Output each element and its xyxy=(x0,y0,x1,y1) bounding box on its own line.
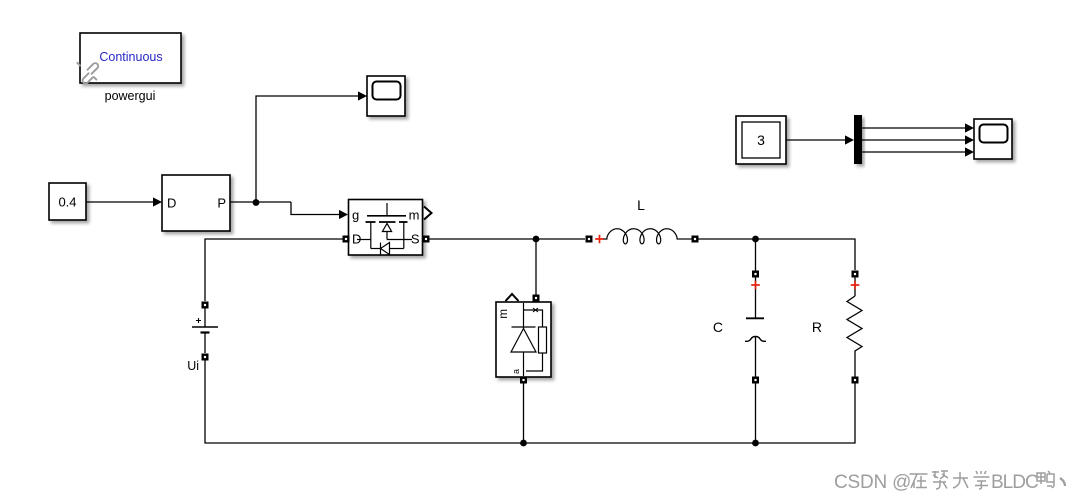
wire red plus to coil xyxy=(604,238,608,240)
svg-text:Continuous: Continuous xyxy=(99,50,162,64)
svg-text:m: m xyxy=(498,309,510,319)
wire D of mosfet to battery top xyxy=(205,239,343,301)
wire demux out2 xyxy=(862,139,966,141)
demux bar xyxy=(854,115,862,164)
wire coil to right port xyxy=(677,238,693,240)
resistor R xyxy=(812,271,862,384)
dc source Ui xyxy=(187,302,218,374)
battery plates xyxy=(192,326,218,328)
mosfet Q1 block xyxy=(349,200,423,256)
svg-text:C: C xyxy=(713,319,723,335)
broken-link icon xyxy=(77,63,98,84)
constant K2 value 3 xyxy=(736,116,786,164)
node J4 on bus xyxy=(520,440,527,447)
port D square xyxy=(343,236,350,243)
wire demux out1 xyxy=(862,127,966,129)
svg-text:BLDC: BLDC xyxy=(991,472,1038,493)
svg-text:P: P xyxy=(217,196,226,211)
port Ui + square xyxy=(202,302,209,309)
node J1 xyxy=(253,199,260,206)
svg-text:powergui: powergui xyxy=(105,89,156,103)
powergui U_powergui xyxy=(80,33,181,83)
svg-text:R: R xyxy=(812,319,822,335)
diode m output chevron up xyxy=(506,294,519,301)
inductor L ports xyxy=(586,236,593,243)
subsystem U_PWM (D/P) xyxy=(162,175,230,231)
wire bus J4 to R corner xyxy=(524,383,856,443)
node J5 on bus xyxy=(752,440,759,447)
node J2 xyxy=(533,236,540,243)
svg-text:a: a xyxy=(511,369,521,374)
watermark CSDN text xyxy=(834,472,1039,494)
zigzag xyxy=(847,296,862,377)
node J3 xyxy=(752,236,759,243)
red plus at R xyxy=(851,281,860,290)
wire Ui down to bottom bus xyxy=(205,361,523,444)
scope Scope2 xyxy=(974,119,1012,159)
svg-text:m: m xyxy=(409,208,420,223)
svg-text:3: 3 xyxy=(757,132,765,148)
svg-text:Ui: Ui xyxy=(187,359,199,373)
wire 0.4 to D input xyxy=(86,201,154,203)
diode D1 internals xyxy=(511,303,547,376)
scope Scope1 xyxy=(367,76,405,116)
red plus at L xyxy=(595,235,604,244)
constant K1 value 0.4 xyxy=(49,183,86,220)
mosfet Q1 internal symbol xyxy=(357,203,412,255)
svg-text:g: g xyxy=(352,208,359,223)
port Ui - square xyxy=(202,354,209,361)
capacitor C xyxy=(713,271,766,384)
diode D1 block xyxy=(496,302,551,377)
diode top port square xyxy=(533,295,540,302)
wire S of mosfet to node J2 and L xyxy=(430,238,586,240)
wire 3 to demux xyxy=(786,139,846,141)
wire diode bottom to bus xyxy=(523,384,525,444)
svg-text:D: D xyxy=(167,196,176,211)
port m output chevron xyxy=(424,207,432,220)
plus sign of source xyxy=(196,318,201,323)
wire J3 down to capacitor xyxy=(755,239,757,271)
wire junction up to Scope1 xyxy=(256,96,359,202)
wire demux out3 xyxy=(862,151,966,153)
wire junction to gate g xyxy=(291,202,340,215)
capacitor plates xyxy=(746,317,764,319)
port S square xyxy=(423,236,430,243)
diode bottom port square xyxy=(520,377,527,384)
wire J2 down to diode xyxy=(535,239,537,296)
wire L to R corner with node J3 xyxy=(699,239,856,270)
svg-text:S: S xyxy=(411,232,420,247)
inductor L coil xyxy=(607,229,677,244)
watermark CJK glyphs xyxy=(911,472,1066,490)
svg-text:0.4: 0.4 xyxy=(58,195,76,210)
wire C to bus xyxy=(755,384,757,444)
svg-text:L: L xyxy=(637,197,645,213)
red plus at C xyxy=(751,281,760,290)
svg-text:CSDN @: CSDN @ xyxy=(834,472,911,493)
wire P to junction xyxy=(230,201,291,203)
